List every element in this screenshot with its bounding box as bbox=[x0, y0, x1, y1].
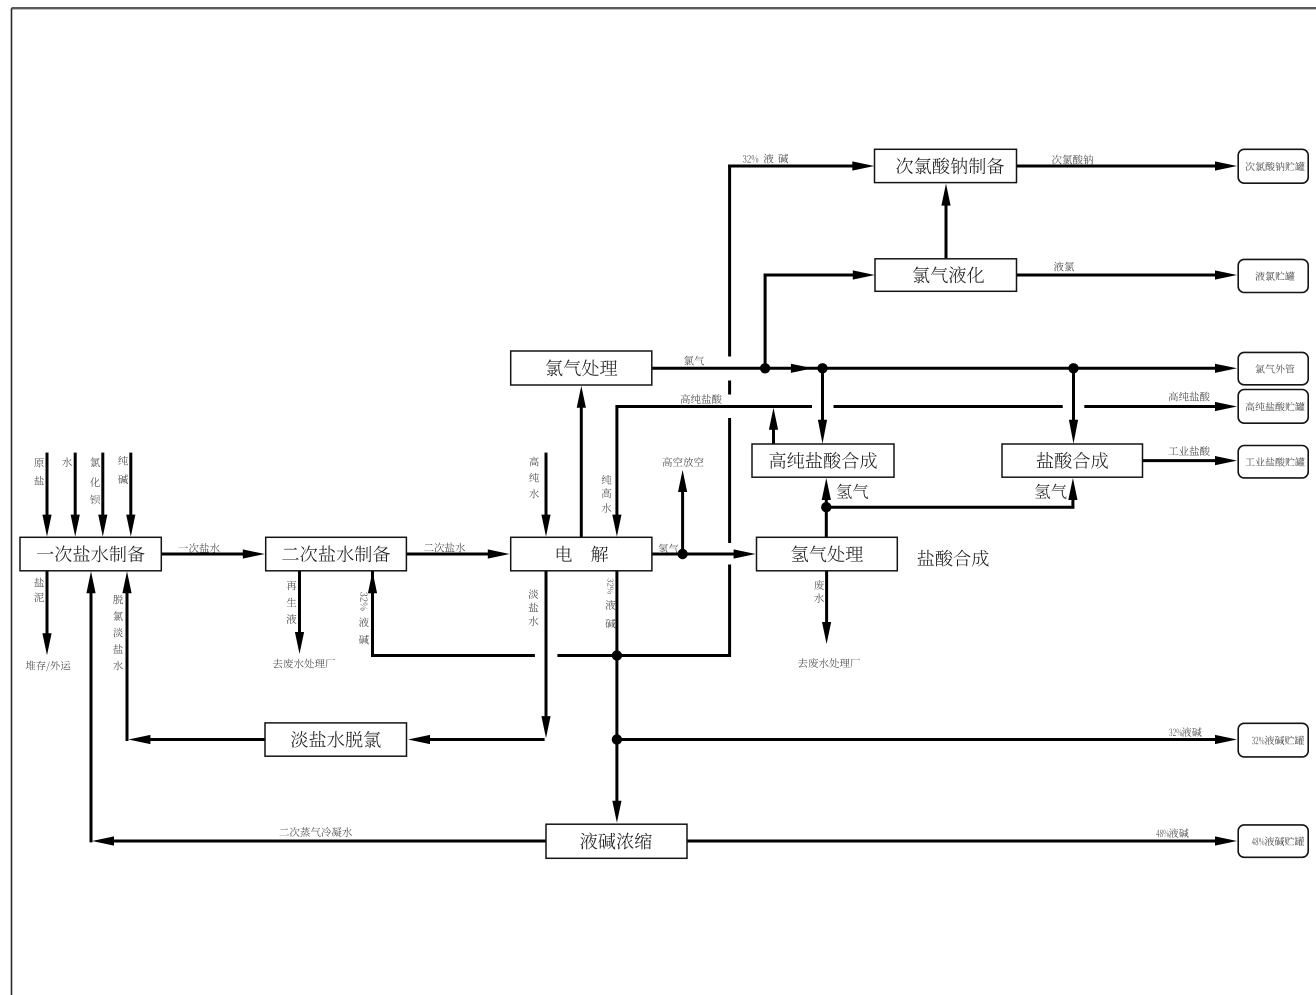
junction 32%液碱 branch bbox=[612, 650, 622, 660]
process box 次氯酸钠制备 bbox=[875, 149, 1017, 182]
arrow into 电解 bbox=[488, 549, 510, 558]
wire 氯气液化 to 次氯酸钠制备 bbox=[945, 204, 948, 259]
label 脱氯淡盐水 bbox=[113, 595, 123, 671]
label 次氯酸钠制备 bbox=[896, 157, 1004, 174]
process box 盐酸合成 bbox=[1002, 444, 1143, 477]
arrow 盐泥 to 堆存/外运 bbox=[42, 633, 51, 655]
wire junction to riser bbox=[617, 654, 731, 657]
wire vertical riser between 高纯盐酸 and 氢气 lines bbox=[728, 418, 731, 543]
wire 32%液碱 recycle segment 2 bbox=[557, 654, 617, 657]
junction 32% row bbox=[612, 734, 622, 744]
process box 液碱浓缩 bbox=[546, 824, 687, 858]
wire vertical riser lower segment bbox=[728, 565, 731, 657]
wire 废水 bbox=[825, 571, 828, 624]
junction 氯气/氯气液化 bbox=[760, 363, 770, 373]
arrow into 盐酸合成 top bbox=[1069, 420, 1078, 444]
wire 32%液碱 to tank bbox=[617, 738, 1216, 741]
label 工业盐酸贮罐 bbox=[1245, 457, 1304, 466]
wire 氢气 to 氢气处理 bbox=[652, 553, 735, 556]
arrow into 工业盐酸贮罐 bbox=[1215, 456, 1237, 465]
wire 淡盐水脱氯 output bbox=[148, 738, 265, 741]
wire 二次盐水 bbox=[406, 553, 488, 556]
wire 一次盐水 bbox=[161, 553, 243, 556]
label 高纯盐酸 left bbox=[681, 394, 722, 404]
wire 氯化钡 feed bbox=[101, 453, 104, 516]
arrow 再生液 to 去废水处理厂 bbox=[295, 632, 304, 654]
wire 高纯盐酸 header segment 2 bbox=[834, 405, 1063, 408]
wire 高纯水 feed bbox=[545, 453, 548, 516]
label 盐泥 bbox=[34, 578, 44, 602]
mid-line arrow on 氯气 header bbox=[791, 364, 813, 373]
label 液氯贮罐 bbox=[1255, 271, 1294, 280]
junction 氢气 branch bbox=[821, 502, 831, 512]
wire junction to junction 32% row bbox=[615, 656, 618, 740]
arrow 氢气 into 盐酸合成 bottom bbox=[1068, 478, 1077, 500]
arrow into 氯气外管 bbox=[1215, 364, 1237, 373]
label 高纯水 bbox=[529, 457, 539, 499]
label 二次盐水制备 bbox=[282, 545, 390, 562]
arrow into 32%液碱贮罐 bbox=[1215, 735, 1237, 744]
label 纯高水 bbox=[602, 475, 612, 513]
junction 氯气/高纯盐酸合成 bbox=[817, 363, 827, 373]
arrow into 次氯酸钠贮罐 bbox=[1215, 161, 1237, 170]
label 电 of 电解 bbox=[557, 546, 572, 562]
arrow into 二次盐水制备 bbox=[243, 549, 265, 558]
wire recycle riser to 二次盐水制备 bbox=[371, 571, 374, 657]
label 盐酸合成 bbox=[1037, 452, 1108, 469]
tank box 氯气外管 bbox=[1238, 352, 1308, 384]
label 次氯酸钠贮罐 bbox=[1245, 162, 1304, 171]
label 二次蒸气冷凝水 bbox=[279, 827, 352, 837]
label 废水 bbox=[814, 580, 824, 603]
arrow into 液氯贮罐 bbox=[1215, 270, 1237, 279]
label 氢气 at 盐酸合成 bbox=[1035, 484, 1067, 499]
arrow into 二次盐水制备 bottom bbox=[368, 571, 377, 593]
wire 氢气 riser to 盐酸合成 bbox=[1071, 498, 1074, 509]
tank box 32%液碱贮罐 bbox=[1238, 723, 1308, 757]
label 48%液碱贮罐 bbox=[1252, 838, 1264, 846]
drawing frame left border bbox=[11, 8, 13, 995]
wire 氯气 drop to 高纯盐酸合成 bbox=[821, 368, 824, 423]
arrow into 氢气处理 bbox=[734, 549, 756, 558]
process box 高纯盐酸合成 bbox=[752, 444, 894, 477]
arrow into 氯气处理 bottom bbox=[577, 386, 586, 408]
process box 氯气液化 bbox=[875, 259, 1017, 292]
arrow 氯化钡 into 一次盐水制备 bbox=[98, 515, 107, 537]
wire 氢气 to 盐酸合成 bbox=[826, 506, 1074, 509]
tank box 高纯盐酸贮罐 bbox=[1238, 390, 1308, 424]
wire 高纯盐酸 header segment 1 bbox=[616, 405, 813, 408]
arrow joining 高纯盐酸 header bbox=[769, 408, 778, 430]
label 氢气处理 bbox=[791, 546, 863, 563]
wire 电解 to 氯气处理 bbox=[580, 406, 583, 537]
wire 高空放空 vent bbox=[681, 490, 684, 554]
label 液氯 bbox=[1054, 262, 1074, 272]
label 解 of 电解 bbox=[591, 546, 608, 562]
label 氢气 at 高纯盐酸合成 bbox=[837, 484, 869, 499]
arrow 淡盐水 at corner bbox=[541, 716, 550, 738]
wire 32%液碱 feed to 次氯酸钠制备 bbox=[728, 165, 852, 168]
wire vertical 32%液碱 riser upper segment bbox=[728, 165, 731, 357]
process box 氯气处理 bbox=[511, 351, 652, 385]
arrow at corner to riser bbox=[92, 836, 114, 845]
wire 液氯 to tank bbox=[1017, 274, 1217, 277]
label 工业盐酸 bbox=[1168, 446, 1209, 456]
label 去废水处理厂 left bbox=[273, 659, 335, 669]
wire riser to 氯气液化 bbox=[764, 274, 767, 369]
arrow 脱氯淡盐水 into 一次盐水制备 bbox=[122, 571, 131, 593]
arrow into 高纯盐酸贮罐 bbox=[1215, 402, 1237, 411]
label standalone 盐酸合成 bbox=[917, 550, 988, 567]
wire 淡盐水 into 淡盐水脱氯 bbox=[429, 738, 545, 741]
label 高纯盐酸贮罐 bbox=[1246, 402, 1305, 411]
drawing frame top border bbox=[12, 7, 1316, 9]
label 一次盐水 bbox=[179, 543, 220, 553]
junction 氢气/高空放空 bbox=[677, 549, 687, 559]
wire 氯气 drop to 盐酸合成 bbox=[1072, 368, 1075, 423]
arrow 水 into 一次盐水制备 bbox=[71, 515, 80, 537]
wire 工业盐酸 to tank bbox=[1143, 459, 1217, 462]
process box 一次盐水制备 bbox=[20, 537, 161, 571]
arrow 纯碱 into 一次盐水制备 bbox=[126, 515, 135, 537]
arrow 高空放空 bbox=[678, 470, 687, 492]
label 一次盐水制备 bbox=[37, 545, 145, 562]
label 淡盐水 bbox=[529, 589, 539, 626]
wire 纯碱 feed bbox=[129, 453, 132, 516]
wire 水 feed bbox=[74, 453, 77, 516]
arrow into 一次盐水制备 bottom bbox=[86, 571, 95, 593]
wire 原盐 feed bbox=[46, 453, 49, 516]
label 原盐 bbox=[34, 458, 44, 485]
wire 高纯盐酸 down to 电解 bbox=[615, 405, 618, 516]
label 氯气外管 bbox=[1255, 364, 1294, 373]
process box 淡盐水脱氯 bbox=[265, 723, 407, 756]
label 氯气处理 bbox=[546, 360, 618, 377]
label 48%液碱 bbox=[1156, 830, 1169, 838]
wire 脱氯淡盐水 riser bbox=[126, 591, 129, 741]
wire 电解 bottom to junction bbox=[615, 571, 618, 656]
junction 氯气/盐酸合成 bbox=[1068, 363, 1078, 373]
wire 高纯盐酸 header segment 3 bbox=[1084, 405, 1216, 408]
arrow into 高纯盐酸合成 top bbox=[818, 420, 827, 444]
label 再生液 bbox=[287, 581, 297, 624]
wire 次氯酸钠 to tank bbox=[1017, 165, 1217, 168]
wire condensate riser bbox=[90, 591, 93, 842]
label 堆存/外运 bbox=[26, 661, 71, 672]
process box 二次盐水制备 bbox=[266, 537, 407, 571]
wire 32%液碱 recycle segment 1 bbox=[371, 654, 535, 657]
tank box 液氯贮罐 bbox=[1238, 259, 1308, 292]
tank box 工业盐酸贮罐 bbox=[1238, 446, 1308, 478]
arrow at corner to riser bbox=[128, 735, 150, 744]
label 二次盐水 bbox=[424, 543, 465, 553]
label 氯气液化 bbox=[913, 266, 984, 283]
arrow into 48%液碱贮罐 bbox=[1215, 836, 1237, 845]
wire feed 氯气液化 bbox=[764, 274, 853, 277]
wire 盐泥 bbox=[46, 571, 49, 635]
label 液碱浓缩 bbox=[580, 833, 652, 850]
label 32%液碱贮罐 bbox=[1252, 737, 1264, 745]
label 32%液碱 vertical at 二次盐水制备 bbox=[360, 592, 367, 610]
wire 氯气 header bbox=[652, 367, 1216, 370]
arrow into 次氯酸钠制备 bottom bbox=[941, 184, 950, 206]
label 高空放空 bbox=[663, 457, 704, 467]
wire vertical riser between 氯气 and 高纯盐酸 lines bbox=[728, 381, 731, 395]
tank box 48%液碱贮罐 bbox=[1238, 825, 1308, 857]
arrow 氢气 into 高纯盐酸合成 bottom bbox=[822, 478, 831, 500]
label 氯化钡 bbox=[90, 457, 100, 504]
wire 再生液 bbox=[298, 571, 301, 633]
wire 48%液碱 to tank bbox=[687, 840, 1216, 843]
arrow 废水 to 去废水处理厂 bbox=[822, 622, 831, 644]
wire 氢气处理 top riser bbox=[825, 498, 828, 537]
process box 电解 bbox=[511, 537, 652, 571]
wire 淡盐水 down bbox=[545, 571, 548, 718]
label 高纯盐酸 right bbox=[1169, 392, 1210, 402]
arrow into 电解 top bbox=[612, 515, 621, 537]
label 32%液碱 right bbox=[1169, 729, 1182, 737]
arrow into 次氯酸钠制备 bbox=[852, 161, 874, 170]
label 32% 液 碱 top bbox=[743, 155, 758, 163]
wire 二次蒸气冷凝水 bbox=[112, 840, 546, 843]
label 水 bbox=[62, 457, 72, 467]
arrow 原盐 into 一次盐水制备 bbox=[42, 515, 51, 537]
arrow into 氯气液化 bbox=[853, 270, 875, 279]
process box 氢气处理 bbox=[757, 537, 898, 571]
arrow into 淡盐水脱氯 right bbox=[408, 735, 430, 744]
tank box 次氯酸钠贮罐 bbox=[1238, 149, 1308, 183]
wire 高纯盐酸合成 up to header bbox=[772, 428, 775, 444]
label 去废水处理厂 right bbox=[798, 658, 860, 668]
label 淡盐水脱氯 bbox=[291, 731, 381, 748]
label 氯气 bbox=[684, 356, 704, 366]
label 氢气 small bbox=[659, 544, 679, 554]
label 32%液碱 vertical at 电解 bbox=[607, 578, 613, 593]
label 高纯盐酸合成 bbox=[769, 452, 876, 469]
arrow 高纯水 into 电解 bbox=[541, 515, 550, 537]
label 次氯酸钠 bbox=[1052, 155, 1093, 165]
arrow into 液碱浓缩 top bbox=[612, 801, 621, 823]
wire down to 液碱浓缩 bbox=[615, 740, 618, 803]
label 纯碱 bbox=[118, 456, 128, 484]
